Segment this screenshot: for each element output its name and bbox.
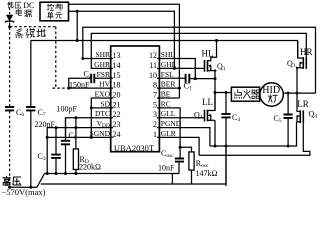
Q2 channel bar — [207, 110, 209, 122]
pin wire GLL to Q2 gate — [157, 117, 205, 119]
svg-text:LL: LL — [202, 97, 213, 107]
node: FSR/C2 drop joins HV wire — [67, 87, 70, 90]
svg-text:220nF: 220nF — [35, 120, 56, 129]
pin wire GHR stub — [111, 67, 113, 69]
svg-text:147kΩ: 147kΩ — [196, 169, 218, 178]
svg-text:11: 11 — [149, 61, 157, 70]
node: C3 bottom on rail A — [55, 172, 58, 175]
pin wire FSR to C2 — [94, 77, 113, 79]
Q2 body arrow — [208, 114, 211, 117]
node: RD top on DTC wire — [74, 116, 77, 119]
Q3 body arrow — [300, 61, 303, 64]
wire: HL node column (Q1 source to Q2 drain) — [214, 71, 216, 111]
svg-text:SHL: SHL — [161, 50, 176, 59]
svg-text:20: 20 — [113, 91, 121, 100]
transistor Q1 (high side left) — [205, 41, 217, 72]
transistor Q3 (high side right, mirrored) — [297, 41, 306, 69]
svg-text:PGND: PGND — [161, 119, 182, 128]
svg-text:FSL: FSL — [161, 70, 174, 79]
wire: Q4 drain riser to mid node — [296, 93, 298, 111]
svg-text:7: 7 — [153, 91, 157, 100]
Q4 drain stub — [297, 110, 301, 112]
wire: C1 right to SHL/HL node line — [189, 78, 215, 80]
pin labels right — [161, 50, 182, 138]
igniter box — [231, 87, 259, 101]
node: control line 2 junction on top rail — [76, 39, 79, 42]
resistor Rosc body — [189, 152, 194, 170]
resistor RD chain — [75, 118, 77, 174]
hanzi 地 (of 系统地) — [37, 29, 45, 37]
Q3 channel bar — [302, 57, 304, 69]
pin wire FSL to C1 — [157, 77, 186, 79]
hanzi 火 (of 点火器) — [243, 90, 250, 99]
Q4 gate bar — [302, 110, 304, 123]
hanzi 源 (of 电源) — [24, 10, 32, 17]
svg-text:12: 12 — [149, 51, 157, 60]
wire: GHR net long loop to Q3 gate — [91, 33, 306, 68]
node: node line joins HL column — [214, 77, 217, 80]
capacitor C4 plates — [221, 114, 230, 118]
capacitor C8 chain — [65, 118, 67, 174]
node: C4 bottom / rail B riser on PGND rail — [225, 145, 228, 148]
svg-text:22: 22 — [113, 110, 121, 119]
pin wire BE — [157, 97, 179, 99]
wire: DC supply dashed vertical line — [9, 3, 11, 188]
svg-text:SD: SD — [100, 99, 110, 108]
svg-text:HV: HV — [99, 80, 110, 89]
svg-text:DC: DC — [23, 1, 34, 10]
svg-text:DTC: DTC — [95, 109, 110, 118]
wire: C2 left dropping to HV wire — [69, 78, 91, 88]
hanzi 器 (of 点火器) — [251, 90, 260, 98]
svg-text:150nF: 150nF — [69, 80, 90, 89]
svg-text:HR: HR — [300, 47, 313, 57]
Q1 gate bar — [204, 60, 206, 72]
wire: GLR line to Q4 gate — [199, 123, 310, 155]
node: HR column junction — [296, 92, 299, 95]
Q2 source stub and drop — [208, 119, 216, 121]
node: junction on control line 2 — [76, 10, 79, 13]
wire: Q3 source to HR mid node — [296, 68, 298, 93]
wire: Rosc bottom to rail B — [191, 170, 193, 184]
wire: lower rail B to PGND riser — [41, 146, 226, 184]
svg-text:3: 3 — [153, 110, 157, 119]
hanzi 元 (of 单元) — [55, 13, 62, 19]
svg-text:BE: BE — [161, 90, 171, 99]
Q4 channel bar — [299, 110, 301, 123]
pin wire DTC — [66, 118, 114, 140]
pin wire GHL to Q1 gate — [157, 67, 205, 69]
hanzi 低 (of 低压DC) — [8, 2, 14, 8]
hanzi 灯 (in HID lamp) — [269, 95, 278, 103]
svg-text:24: 24 — [113, 130, 121, 139]
Q3 drain stub and riser — [298, 41, 304, 59]
svg-text:HID: HID — [262, 85, 280, 96]
Q1 channel bar — [207, 60, 209, 72]
hanzi 控 (of 控制) — [47, 4, 54, 10]
capacitor C7 plates — [26, 107, 35, 110]
pin wire HV — [69, 87, 113, 89]
wire: diagonal jog -570V rail to rail A — [37, 174, 45, 188]
svg-text:SGND: SGND — [90, 129, 111, 138]
wire: Q2 source to PGND rail — [214, 120, 216, 146]
svg-text:10nF: 10nF — [158, 163, 175, 172]
svg-text:RC: RC — [161, 99, 171, 108]
node: C3 top on VDD wire — [55, 126, 58, 129]
capacitor C5 chain — [287, 93, 289, 146]
svg-text:1: 1 — [153, 130, 157, 139]
pin wire EXO — [91, 98, 113, 137]
svg-text:GHL: GHL — [161, 60, 177, 69]
node: C8 bottom on rail A — [64, 172, 67, 175]
node: BER wire joins control line 1 riser — [178, 87, 181, 90]
svg-text:HL: HL — [202, 48, 214, 58]
svg-text:EXO: EXO — [95, 90, 111, 99]
hanzi 系 (of 系统地) — [15, 29, 23, 38]
node: SHL riser joins FSL node line — [194, 77, 197, 80]
svg-text:220kΩ: 220kΩ — [79, 163, 101, 172]
Q3 gate bar — [305, 57, 307, 69]
wire: top rail drop to Q3 drain — [297, 41, 299, 59]
svg-text:SHR: SHR — [95, 50, 110, 59]
capacitor C4 chain — [225, 93, 227, 187]
node: SGND joins VDD drop — [46, 136, 49, 139]
capacitor C2 plates — [91, 74, 94, 83]
svg-text:100pF: 100pF — [57, 105, 78, 114]
Q2 gate bar — [204, 110, 206, 122]
Q3 source stub — [297, 67, 303, 69]
wire: jog rail A down to rail B — [171, 174, 173, 185]
node: HL column at mid wire — [214, 91, 217, 94]
hanzi 电 (of 电源) — [16, 9, 21, 15]
transistor Q4 (low side right, mirrored) — [297, 110, 304, 123]
svg-text:23: 23 — [113, 120, 121, 129]
pin wire VDD — [47, 128, 113, 174]
svg-text:GLR: GLR — [161, 129, 176, 138]
wire: dashed vertical to HV net — [55, 27, 57, 88]
pin wires left side: SHR stub — [111, 58, 113, 60]
pin numbers right — [149, 51, 157, 139]
wire: dashed tail joining HV wire — [53, 87, 69, 89]
Q1 drain stub and riser — [208, 41, 217, 61]
hanzi 制 (of 控制) — [56, 4, 63, 11]
hanzi 压 (of 高压) — [13, 177, 21, 185]
pin wire GLR — [157, 137, 199, 155]
wire: control unit output line 2 (to rail and GHL) — [69, 11, 175, 68]
wire: mid node to igniter — [215, 92, 231, 94]
svg-text:18: 18 — [113, 81, 121, 90]
node: junction of DC line and system-ground dashed line — [8, 25, 11, 28]
wire: dashed horizontal (system ground boundary) — [10, 26, 56, 28]
capacitor C6 plates (on dashed DC line) — [5, 107, 14, 110]
wire: Q2 drain riser — [214, 93, 216, 111]
svg-text:13: 13 — [113, 51, 121, 60]
node: dashed line end on bottom -570V rail — [8, 186, 11, 189]
svg-text:−570V(max): −570V(max) — [2, 187, 46, 197]
node: C5 bottom on PGND rail — [287, 145, 290, 148]
svg-text:GLL: GLL — [161, 109, 176, 118]
node: VDD/SGND drop on rail A — [46, 172, 49, 175]
hanzi 统 (of 系统地) — [26, 29, 35, 38]
node: C4 top junction — [225, 91, 228, 94]
node: C7 bottom on -570V rail — [29, 186, 32, 189]
node: Q2 source on PGND rail — [214, 145, 217, 148]
svg-text:15: 15 — [113, 71, 121, 80]
svg-text:LR: LR — [297, 99, 309, 109]
IC U1 UBA2030T box — [111, 46, 160, 152]
pin wires right side: SHL — [157, 59, 195, 79]
svg-text:5: 5 — [153, 100, 157, 109]
svg-text:14: 14 — [113, 61, 121, 70]
pin wire RC — [157, 108, 180, 147]
diode D (zener) on DC line — [5, 15, 14, 23]
svg-text:BER: BER — [161, 80, 176, 89]
HID lamp circle — [260, 83, 283, 106]
capacitor C1 plates — [186, 74, 190, 83]
pin wire BER — [157, 87, 179, 89]
capacitor C3 plates — [51, 155, 61, 158]
hanzi 压 (of 低压DC) — [15, 2, 21, 8]
capacitor Cosc plates — [175, 159, 184, 162]
node: Q3 source junction — [296, 67, 298, 69]
control unit box — [40, 2, 69, 21]
wire: lamp right to HR node — [283, 92, 315, 94]
hanzi 单 (of 单元) — [47, 12, 54, 19]
transistor Q2 (low side left) — [205, 110, 216, 122]
wire: -570V bottom rail — [8, 186, 37, 188]
wire: bottom rail A — [45, 173, 180, 175]
Q2 drain stub — [208, 110, 216, 112]
wire: control line 2 drop to rail — [76, 11, 78, 40]
node: RC branch junction — [179, 146, 182, 149]
resistor RD body — [73, 149, 78, 170]
capacitor C8 plates — [61, 141, 70, 145]
svg-text:GHR: GHR — [94, 60, 110, 69]
pin numbers left — [113, 51, 121, 139]
Q4 source stub — [297, 121, 301, 123]
svg-text:UBA2030T: UBA2030T — [114, 143, 155, 153]
wire: RC branch to Rosc top — [180, 147, 191, 152]
node: RD crossing VDD wire — [74, 126, 77, 129]
Q1 body arrow — [208, 64, 211, 67]
svg-text:2: 2 — [153, 120, 157, 129]
node: Q1 source junction — [214, 69, 216, 71]
node: Q1 drain junction on top rail — [215, 39, 218, 42]
hanzi 高 (of 高压) — [3, 176, 11, 185]
node: SD joins EXO riser — [90, 106, 93, 109]
node: RD bottom on rail A — [74, 172, 77, 175]
pin wire SD — [91, 107, 113, 109]
svg-text:10: 10 — [149, 71, 157, 80]
wire: PGND rail — [210, 122, 297, 146]
svg-text:21: 21 — [113, 100, 121, 109]
wire: control unit output line 1 (to BE/BER) — [69, 4, 180, 98]
pin labels left — [90, 50, 111, 138]
capacitor C5 plates — [284, 115, 293, 119]
pin wire SGND — [47, 136, 113, 138]
capacitor C3 chain — [55, 128, 57, 174]
svg-text:8: 8 — [153, 81, 157, 90]
wire: RC drop to Cosc — [179, 147, 180, 173]
svg-text:FSR: FSR — [97, 70, 110, 79]
node: SHR corner dot — [81, 57, 84, 60]
pin wire PGND — [157, 128, 210, 146]
node: EXO riser ends on SGND wire — [90, 136, 93, 139]
node: C5 top junction — [287, 92, 290, 95]
wire: top rail (system ground rail y=40.5) — [31, 40, 298, 42]
capacitor C7 vertical chain — [30, 41, 32, 188]
Q1 source stub — [208, 70, 217, 72]
wire: SHR net long loop to HR node — [83, 27, 316, 93]
node: control line 2 riser lands on GHL wire — [173, 67, 176, 70]
Q4 body arrow — [297, 115, 300, 118]
hanzi 点 (of 点火器) — [234, 90, 241, 99]
